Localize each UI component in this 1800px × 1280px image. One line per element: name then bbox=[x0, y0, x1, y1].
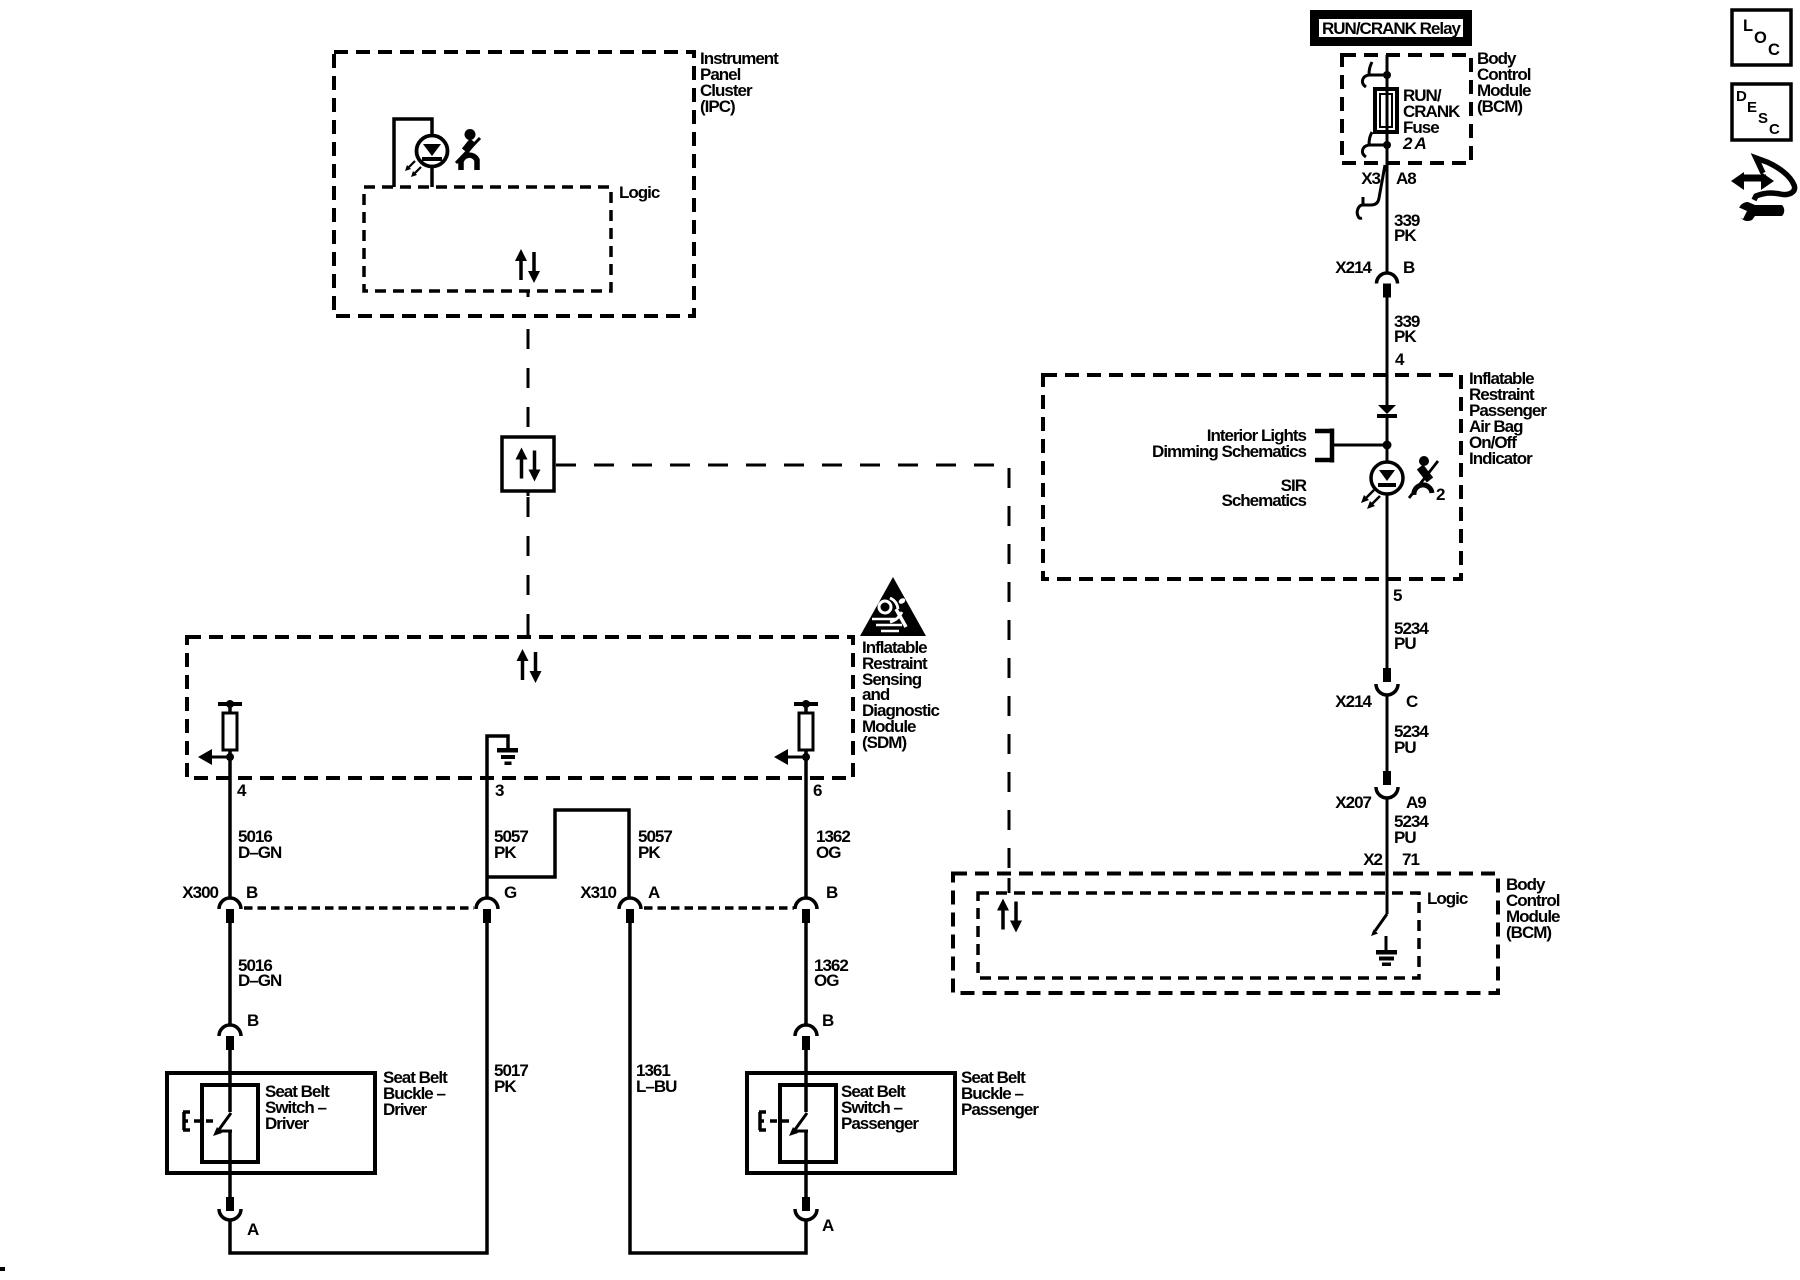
module box Inflatable Restraint Passenger Air Bag On/Off Indicator bbox=[1043, 369, 1547, 579]
diode (indicator) bbox=[1377, 405, 1397, 418]
DESC reference box bbox=[1732, 84, 1791, 140]
wire 1362 OG (X310 B to passenger buckle B) bbox=[806, 923, 848, 1025]
wire 5234 PU (X207 to BCM X2 pin 71) bbox=[1363, 798, 1429, 914]
mark (bottom left) bbox=[0, 1267, 5, 1271]
passenger air bag icon 2 bbox=[1409, 456, 1445, 504]
wire serial data (IPC to splice box, dashed) bbox=[527, 291, 530, 437]
node (interior lights dimming tap) bbox=[1152, 426, 1391, 463]
switch (BCM logic, to ground) bbox=[1371, 914, 1387, 936]
svg-text:Indicator: Indicator bbox=[1469, 449, 1533, 468]
svg-text:71: 71 bbox=[1402, 850, 1419, 869]
svg-text:D–GN: D–GN bbox=[238, 971, 282, 990]
wire 339 PK (X214 to indicator) bbox=[1387, 297, 1420, 405]
jump/tools icon bbox=[1726, 158, 1795, 221]
svg-text:Driver: Driver bbox=[383, 1100, 428, 1119]
serial data arrows (IPC logic) bbox=[515, 249, 540, 283]
svg-text:Logic: Logic bbox=[619, 183, 660, 202]
module box Instrument Panel Cluster (IPC) bbox=[334, 49, 779, 316]
svg-text:Schematics: Schematics bbox=[1222, 491, 1307, 510]
svg-text:X300: X300 bbox=[182, 883, 218, 902]
svg-text:C: C bbox=[1769, 121, 1780, 138]
svg-text:C: C bbox=[1406, 692, 1418, 711]
wire 5016 D-GN (X300 to driver buckle B) bbox=[230, 923, 282, 1025]
wire (IPC indicator loop) bbox=[394, 119, 432, 187]
ground (SDM internal) bbox=[487, 736, 518, 778]
connector X300 pin B bbox=[182, 883, 258, 923]
svg-text:L: L bbox=[1743, 17, 1753, 35]
connector X214 pin B bbox=[1335, 258, 1415, 298]
svg-text:Dimming Schematics: Dimming Schematics bbox=[1152, 442, 1306, 461]
seat belt icon (IPC) bbox=[456, 129, 480, 170]
svg-text:A8: A8 bbox=[1396, 169, 1416, 188]
svg-text:D–GN: D–GN bbox=[238, 843, 282, 862]
svg-text:(BCM): (BCM) bbox=[1477, 97, 1522, 116]
wire 5016 D-GN (SDM pin 4 to X300) bbox=[230, 778, 282, 898]
resistor (SDM driver side) bbox=[198, 700, 242, 778]
connector X310 pin B bbox=[795, 883, 838, 923]
LOC reference box bbox=[1732, 10, 1791, 65]
serial data arrows (SDM) bbox=[517, 649, 542, 683]
svg-text:OG: OG bbox=[816, 843, 841, 862]
wire 5234 PU (indicator to X214 C) bbox=[1387, 494, 1429, 668]
svg-text:X3: X3 bbox=[1361, 169, 1380, 188]
wire (BCM internal, relay feed through fuse) bbox=[1386, 55, 1389, 272]
svg-text:PK: PK bbox=[638, 843, 661, 862]
logic block (BCM) bbox=[978, 889, 1468, 978]
svg-text:X207: X207 bbox=[1335, 793, 1371, 812]
switch Seat Belt Switch - Passenger bbox=[759, 1073, 919, 1197]
svg-text:A9: A9 bbox=[1406, 793, 1426, 812]
svg-text:C: C bbox=[1768, 41, 1780, 59]
svg-text:A: A bbox=[822, 1216, 834, 1235]
wire 1362 OG (SDM pin 6 to X310 B) bbox=[806, 778, 850, 898]
wire (X310 A-B harness joint, dashed) bbox=[644, 906, 794, 910]
svg-text:Passenger: Passenger bbox=[961, 1100, 1039, 1119]
wire (passenger buckle B to switch) bbox=[804, 1050, 808, 1073]
label SIR Schematics bbox=[1222, 476, 1307, 510]
connector passenger buckle pin B bbox=[795, 1011, 834, 1050]
svg-text:(IPC): (IPC) bbox=[700, 97, 735, 116]
serial data arrows (BCM logic) bbox=[997, 899, 1022, 933]
svg-text:(BCM): (BCM) bbox=[1506, 923, 1551, 942]
connector driver buckle pin B bbox=[219, 1011, 259, 1050]
node hook (fuse downstream tap) bbox=[1362, 132, 1391, 157]
connector X3 pin A8 (BCM) bbox=[1357, 165, 1416, 218]
svg-text:PK: PK bbox=[1394, 226, 1417, 245]
wire 5057 PK (SDM pin 3 to X300 G) bbox=[487, 778, 528, 898]
wire 5017 PK (driver buckle A to X300 G) bbox=[230, 923, 528, 1253]
resistor (SDM passenger side) bbox=[774, 700, 818, 778]
module box Inflatable Restraint Sensing and Diagnostic Module (SDM) bbox=[187, 637, 939, 778]
svg-text:S: S bbox=[1758, 110, 1768, 127]
serial data symbol box bbox=[502, 437, 554, 491]
svg-text:B: B bbox=[246, 883, 258, 902]
svg-text:OG: OG bbox=[814, 971, 839, 990]
connector X214 pin C bbox=[1335, 668, 1418, 711]
svg-text:A: A bbox=[247, 1220, 259, 1239]
wire (X300 B-G harness joint, dashed) bbox=[244, 906, 474, 910]
connector X310 pin A bbox=[580, 883, 660, 923]
svg-text:X310: X310 bbox=[580, 883, 616, 902]
svg-text:(SDM): (SDM) bbox=[862, 733, 906, 752]
connector X207 pin A9 bbox=[1335, 771, 1426, 812]
switch Seat Belt Switch - Driver bbox=[183, 1073, 330, 1197]
svg-text:Driver: Driver bbox=[265, 1114, 310, 1133]
svg-text:PU: PU bbox=[1394, 634, 1416, 653]
svg-text:G: G bbox=[504, 883, 517, 902]
wire (driver buckle B to switch) bbox=[228, 1050, 232, 1073]
module box Body Control Module (BCM) bottom bbox=[953, 874, 1560, 994]
LED seat belt indicator (IPC) bbox=[405, 136, 448, 178]
svg-text:2: 2 bbox=[1436, 485, 1445, 504]
svg-text:L–BU: L–BU bbox=[636, 1077, 677, 1096]
module box Body Control Module (BCM) top bbox=[1342, 49, 1531, 163]
svg-text:E: E bbox=[1747, 99, 1757, 116]
component box Seat Belt Buckle - Passenger bbox=[747, 1068, 1039, 1173]
wire 5057 PK branch (to X310 A) bbox=[487, 810, 672, 898]
svg-text:X2: X2 bbox=[1363, 850, 1382, 869]
connector driver buckle pin A bbox=[219, 1197, 259, 1239]
svg-text:D: D bbox=[1736, 88, 1747, 105]
connector passenger buckle pin A bbox=[795, 1197, 834, 1235]
wire serial data (splice box to SDM, dashed) bbox=[527, 491, 530, 637]
svg-text:B: B bbox=[1403, 258, 1415, 277]
svg-text:X214: X214 bbox=[1335, 692, 1372, 711]
svg-text:PK: PK bbox=[494, 1077, 517, 1096]
svg-text:PK: PK bbox=[494, 843, 517, 862]
svg-text:B: B bbox=[247, 1011, 259, 1030]
svg-text:Logic: Logic bbox=[1427, 889, 1468, 908]
wire 5234 PU (X214 C to X207) bbox=[1387, 695, 1429, 771]
node hook (fuse upstream tap) bbox=[1362, 62, 1391, 87]
fuse RUN/CRANK Fuse 2 A bbox=[1375, 86, 1461, 153]
svg-text:X214: X214 bbox=[1335, 258, 1372, 277]
svg-text:A: A bbox=[648, 883, 660, 902]
ground (BCM) bbox=[1376, 936, 1397, 966]
svg-text:PU: PU bbox=[1394, 738, 1416, 757]
svg-text:Passenger: Passenger bbox=[841, 1114, 919, 1133]
svg-text:B: B bbox=[826, 883, 838, 902]
logic block (IPC) bbox=[364, 183, 660, 291]
svg-text:B: B bbox=[822, 1011, 834, 1030]
svg-text:6: 6 bbox=[813, 781, 822, 800]
wire 1361 L-BU (X310 A to passenger buckle A) bbox=[630, 923, 806, 1253]
LED passenger air bag on/off indicator lamp bbox=[1361, 462, 1403, 509]
wire serial data (splice box to BCM, dashed) bbox=[556, 465, 1009, 893]
svg-text:3: 3 bbox=[495, 781, 504, 800]
svg-text:RUN/CRANK Relay: RUN/CRANK Relay bbox=[1322, 19, 1462, 38]
svg-text:PU: PU bbox=[1394, 828, 1416, 847]
svg-text:O: O bbox=[1754, 29, 1767, 47]
warning triangle (air bag caution) bbox=[860, 577, 926, 636]
svg-text:5: 5 bbox=[1393, 586, 1402, 605]
svg-text:2 A: 2 A bbox=[1402, 134, 1427, 153]
svg-text:PK: PK bbox=[1394, 327, 1417, 346]
relay RUN/CRANK Relay (title box) bbox=[1314, 14, 1469, 43]
wire (diode to LED) bbox=[1386, 418, 1389, 462]
component box Seat Belt Buckle - Driver bbox=[167, 1068, 448, 1173]
connector X300 pin G bbox=[476, 883, 517, 923]
wire 339 PK (fuse to X214) bbox=[1394, 211, 1420, 245]
